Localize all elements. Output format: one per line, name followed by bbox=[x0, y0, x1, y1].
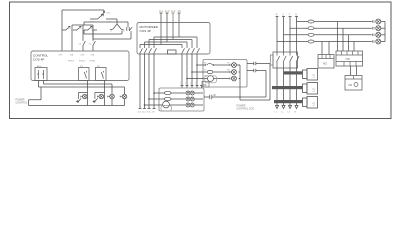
aux panel box bbox=[203, 60, 247, 88]
svg-text:L3: L3 bbox=[312, 102, 316, 106]
wire lamp3 down bbox=[111, 99, 113, 106]
contact K2 bbox=[127, 27, 132, 31]
svg-text:HZ: HZ bbox=[323, 62, 327, 66]
wire phase row4 y41.5 bbox=[277, 41, 372, 43]
pushbutton PB2 bbox=[93, 93, 105, 102]
terminal 1L1 top bbox=[160, 13, 163, 23]
wire terminal drop 2T3 with contact bbox=[83, 25, 86, 51]
wire HZ feed 2 bbox=[328, 42, 330, 55]
aux contact block bbox=[35, 68, 47, 81]
wire y84 bbox=[44, 84, 113, 94]
terminal ticks control box bbox=[61, 50, 95, 52]
svg-text:L3: L3 bbox=[312, 88, 316, 92]
contact A3 bbox=[87, 26, 92, 30]
wire aux pin1 down bbox=[38, 81, 40, 88]
contact A2 bbox=[76, 26, 81, 30]
SPD module 1 bbox=[303, 70, 308, 79]
power control cos box bbox=[159, 88, 204, 111]
svg-text:N: N bbox=[295, 14, 297, 17]
arrow terminal S bbox=[282, 106, 285, 109]
feeder down T bbox=[289, 68, 291, 106]
terminal stub 5 bbox=[200, 86, 203, 89]
wire frow1 y93 bbox=[154, 92, 203, 94]
svg-text:COS 4P: COS 4P bbox=[33, 57, 44, 61]
lamp H1 bbox=[81, 96, 83, 98]
breaker Q1 bbox=[273, 52, 298, 68]
small label box bbox=[202, 82, 209, 88]
breaker poles bbox=[277, 52, 280, 68]
feeder down R bbox=[276, 68, 278, 106]
wire VS feed 2 bbox=[342, 28, 344, 51]
wire switch to contact bbox=[106, 19, 117, 24]
wire lamp4 down bbox=[124, 99, 126, 106]
supply bus N bbox=[295, 17, 298, 53]
wire COS route 2 bbox=[145, 23, 188, 49]
svg-text:L3: L3 bbox=[312, 74, 316, 78]
wire output left 3 bbox=[148, 54, 151, 109]
fuse FR3 bbox=[308, 33, 314, 36]
relay block POS1 bbox=[79, 68, 90, 81]
wire riser to switch bbox=[103, 10, 105, 13]
motor actuator M1 bbox=[168, 50, 177, 54]
supply bus S bbox=[282, 17, 285, 53]
arrow terminal R bbox=[276, 106, 279, 109]
svg-text:1N: 1N bbox=[178, 9, 181, 13]
lamp H4 bbox=[120, 96, 122, 98]
SPD module 2 bbox=[303, 84, 308, 93]
svg-text:POS1: POS1 bbox=[79, 61, 86, 63]
lamp H3 bbox=[108, 96, 110, 98]
wire VM feed 1 bbox=[350, 66, 352, 76]
wire frow3 y105 bbox=[145, 104, 204, 106]
lamp pair row2 bbox=[186, 97, 190, 101]
connector wire 2 bbox=[220, 69, 267, 97]
wire power control feed bbox=[29, 87, 42, 100]
lamp H2 bbox=[97, 96, 99, 98]
supply bus R bbox=[276, 17, 279, 53]
wire row1 y65 bbox=[197, 64, 240, 66]
SPD module 3 bbox=[303, 98, 308, 107]
svg-text:R: R bbox=[276, 14, 278, 17]
control COS 4P box bbox=[31, 51, 129, 81]
lamp HL4 bbox=[372, 40, 374, 42]
wire y22 bbox=[84, 22, 128, 27]
lamp pair row1 bbox=[186, 91, 190, 95]
wire COS route 1 bbox=[140, 23, 182, 49]
wire output right 2 bbox=[186, 54, 189, 88]
svg-text:ON: ON bbox=[107, 13, 111, 15]
relay blade 2 bbox=[101, 71, 103, 79]
svg-text:1L2: 1L2 bbox=[165, 9, 170, 13]
fuse F2 bbox=[164, 97, 171, 100]
wire power control bracket bbox=[28, 100, 30, 106]
wire terminal drop 1T4 with contact bbox=[93, 30, 96, 51]
motorized COS 4P box bbox=[137, 23, 210, 55]
border frame bbox=[10, 2, 392, 119]
wire output right 1 bbox=[181, 54, 184, 88]
svg-text:7SB: 7SB bbox=[345, 57, 350, 61]
wire COS route 4 bbox=[154, 23, 197, 49]
wire VS feed 1 bbox=[337, 22, 339, 52]
switch blades bank I bbox=[140, 48, 157, 53]
wire COS route 3 bbox=[149, 23, 192, 49]
meter HZ bbox=[318, 55, 334, 69]
wire VS feed 3 bbox=[348, 35, 350, 51]
lamp HL1 bbox=[372, 20, 374, 22]
wire phase row2 y28.2 bbox=[290, 27, 372, 29]
fuse FR1 bbox=[308, 20, 314, 23]
wire y87 bbox=[39, 87, 125, 94]
switch blades bank II bbox=[182, 48, 200, 53]
svg-text:2N: 2N bbox=[152, 112, 155, 114]
wire output left 2 bbox=[143, 54, 146, 109]
svg-text:MAN: MAN bbox=[90, 20, 95, 23]
motor symbol row3 bbox=[208, 76, 214, 82]
lamp HL3 bbox=[372, 34, 374, 36]
connector power control cos bbox=[204, 95, 220, 99]
lamp P3 bbox=[230, 78, 232, 80]
aux pins bbox=[38, 70, 44, 79]
fuse oval row2 bbox=[207, 70, 213, 73]
relay block POS2 bbox=[96, 68, 107, 81]
wire row3 y78.5 bbox=[187, 78, 240, 80]
fuse F1 bbox=[164, 91, 171, 94]
wire row2 y72 bbox=[192, 71, 240, 73]
motor M row3 bbox=[163, 101, 170, 108]
wire output right 3 bbox=[191, 54, 194, 88]
wire control left rail bbox=[61, 10, 63, 51]
svg-text:1L3: 1L3 bbox=[171, 9, 176, 13]
wire phase row1 y21.5 bbox=[297, 21, 372, 23]
bus lamps return bbox=[384, 22, 386, 42]
wire output left 4 bbox=[153, 54, 156, 109]
feeder down S bbox=[283, 68, 285, 106]
wire VS feed 4 bbox=[353, 42, 355, 52]
wire control top bbox=[62, 9, 104, 11]
wire B y39 bbox=[93, 30, 131, 39]
wire bottom y105.5 bbox=[29, 105, 125, 107]
terminal 1L2 top bbox=[166, 13, 169, 23]
feed bar SPD1 bbox=[284, 71, 303, 74]
lamp P1 bbox=[230, 64, 232, 66]
svg-text:AUX: AUX bbox=[37, 65, 42, 68]
wire terminal drop 1T8 bbox=[71, 30, 73, 52]
connector wire 1 bbox=[247, 62, 270, 100]
wire phase row3 y34.8 bbox=[284, 34, 372, 36]
fuse FR2 bbox=[308, 27, 314, 30]
svg-text:COS 4P: COS 4P bbox=[140, 29, 151, 33]
pushbutton PB1 bbox=[76, 93, 87, 102]
svg-text:CONTROL: CONTROL bbox=[16, 102, 28, 105]
bus lamps right bbox=[236, 65, 270, 100]
bus relay2 down bbox=[104, 81, 106, 106]
wire HZ feed 1 bbox=[321, 42, 323, 55]
arrow terminal T bbox=[289, 106, 292, 109]
terminal 1N top bbox=[178, 13, 181, 23]
wire bus y25 bbox=[72, 25, 93, 30]
contact chain leads bbox=[62, 29, 97, 31]
svg-text:POS1: POS1 bbox=[90, 61, 97, 63]
supply bus T bbox=[289, 17, 292, 53]
fuse FR4 bbox=[308, 40, 314, 43]
svg-text:POS1: POS1 bbox=[68, 61, 75, 63]
wire riser x84 bbox=[83, 22, 85, 25]
terminal 1L3 top bbox=[172, 13, 175, 23]
switch S1 manual-auto blade bbox=[90, 14, 104, 19]
feed bar SPD3 bbox=[274, 100, 303, 103]
wire VM feed 2 bbox=[356, 66, 358, 76]
relay blade 1 bbox=[84, 71, 86, 79]
voltmeter selector VS bbox=[336, 51, 363, 66]
bus relay1 down bbox=[87, 81, 89, 106]
contact A1 bbox=[65, 26, 70, 30]
arrow terminal N bbox=[295, 106, 298, 109]
lamp HL2 bbox=[372, 27, 374, 29]
contact K1 changeover bbox=[110, 24, 124, 30]
wire output left 1 bbox=[139, 54, 142, 109]
feed bar SPD2 bbox=[272, 86, 303, 89]
wire output right 4 bbox=[196, 54, 199, 88]
svg-text:OFF: OFF bbox=[107, 21, 112, 23]
lamp P2 bbox=[230, 71, 232, 73]
svg-text:VM: VM bbox=[348, 83, 352, 87]
contact arc row1 bbox=[205, 63, 213, 66]
wire aux pin2 down bbox=[43, 81, 45, 85]
voltmeter VM bbox=[345, 76, 362, 91]
feeder down N bbox=[296, 68, 298, 106]
lamp pair row3 bbox=[186, 103, 190, 107]
wire A y34 bbox=[84, 30, 122, 34]
svg-text:1L1: 1L1 bbox=[159, 9, 164, 13]
svg-text:MB: MB bbox=[203, 84, 207, 87]
svg-text:CONTROL COS: CONTROL COS bbox=[237, 108, 255, 111]
wire frow2 y99 bbox=[149, 98, 203, 100]
node J1 bbox=[103, 11, 105, 13]
